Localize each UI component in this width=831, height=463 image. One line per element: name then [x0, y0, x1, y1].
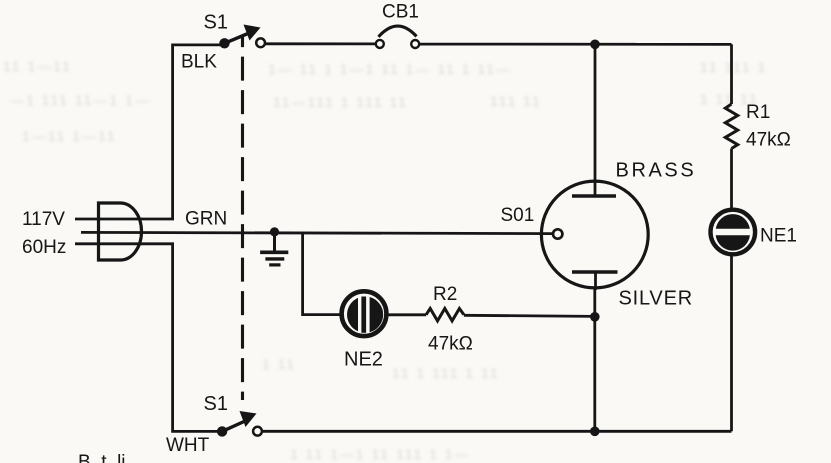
socket S01: silver (bottom) electrode — [572, 270, 618, 274]
node: junction on bottom rail — [590, 427, 600, 437]
svg-text:R2: R2 — [433, 284, 457, 305]
wire: 60Hz lead from label through plug — [75, 242, 174, 245]
svg-text:117V: 117V — [22, 209, 65, 230]
wire: top rail from CB1 to junction and right corner — [419, 43, 731, 46]
wire: left rail down to bottom switch — [173, 244, 219, 432]
node: junction of R2 wire and tube stem — [590, 312, 600, 322]
svg-text:1 11: 1 11 — [262, 356, 296, 372]
switch S1 top pole: hinge dot — [219, 38, 229, 48]
wire: right rail from R1 to NE1 — [730, 149, 733, 210]
svg-text:NE2: NE2 — [344, 349, 383, 371]
switch S1 top pole: throw contact — [256, 38, 265, 47]
switch S1 top pole: arrowhead — [244, 25, 261, 41]
socket S01: centre pin contact — [553, 229, 562, 238]
wire: R2 to tube-stem junction — [464, 315, 595, 316]
svg-text:B. t. li: B. t. li — [78, 452, 126, 463]
svg-text:1— 11 1 1—1 11 1— 11 1 11—: 1— 11 1 1—1 11 1— 11 1 11— — [268, 61, 512, 77]
neon lamp NE1: electrodes (disc with horizontal gap) — [716, 214, 750, 251]
node: top junction at tube stem — [590, 40, 600, 50]
svg-text:11 111 1: 11 111 1 — [700, 59, 767, 75]
svg-text:S1: S1 — [204, 393, 228, 415]
neon lamp NE2: envelope — [342, 291, 387, 336]
svg-text:SILVER: SILVER — [619, 288, 693, 310]
node: junction of GRN line and ground — [270, 227, 279, 236]
partially cut caption at bottom left — [78, 452, 126, 463]
wire: left rail up to top switch — [173, 45, 221, 219]
switch S1 top pole: blade — [225, 34, 249, 44]
switch S1 bottom pole: hinge dot — [217, 426, 227, 436]
svg-text:S01: S01 — [501, 205, 535, 226]
wire: NE2 to R2 — [387, 313, 426, 316]
wire: top rail from switch to CB1 — [265, 42, 376, 45]
plug P1 line-cord connector — [99, 203, 142, 260]
wire: tube cathode stem down to bottom rail — [593, 288, 596, 431]
svg-text:60Hz: 60Hz — [22, 237, 66, 258]
svg-text:BLK: BLK — [181, 52, 217, 73]
svg-text:NE1: NE1 — [760, 226, 797, 247]
svg-text:11—111 1 111 11: 11—111 1 111 11 — [273, 94, 408, 110]
wire: bottom rail — [262, 430, 732, 433]
svg-text:R1: R1 — [746, 102, 770, 123]
wire: GRN middle conductor — [81, 232, 553, 233]
svg-text:S1: S1 — [204, 12, 228, 34]
switch S1 bottom pole: blade — [222, 422, 244, 432]
resistor R2 47k zigzag — [426, 309, 464, 321]
svg-text:BRASS: BRASS — [616, 160, 697, 182]
svg-text:GRN: GRN — [185, 209, 227, 230]
svg-text:—1 111 11—1 1—: —1 111 11—1 1— — [10, 92, 151, 108]
circuit breaker CB1: right contact — [411, 40, 419, 48]
svg-text:1—11 1—11: 1—11 1—11 — [22, 128, 117, 144]
switch S1 bottom pole: throw contact — [253, 427, 262, 436]
svg-text:11 1—11: 11 1—11 — [3, 58, 72, 74]
circuit breaker CB1: arc — [379, 26, 417, 37]
socket S01: stem from silver electrode — [594, 272, 597, 290]
svg-text:WHT: WHT — [166, 435, 210, 456]
switch S1 bottom pole: arrowhead — [240, 411, 257, 427]
mechanical link between S1 poles (dashed) — [241, 37, 244, 400]
svg-text:1 11 1—1 11 111 1 1—: 1 11 1—1 11 111 1 1— — [290, 446, 471, 462]
wire: tube anode stem from top rail down into socket — [594, 44, 597, 196]
svg-text:11 1 111 1 11: 11 1 111 1 11 — [392, 365, 499, 381]
svg-text:111 11: 111 11 — [490, 93, 542, 109]
wire: right rail down to R1 — [730, 44, 733, 104]
neon lamp NE1: envelope — [711, 210, 756, 255]
resistor R1 47k zigzag — [725, 104, 737, 149]
neon lamp NE2: electrodes (disc with vertical gap and centre bar) — [347, 297, 383, 333]
socket S01: brass (top) electrode — [572, 194, 616, 198]
svg-text:47kΩ: 47kΩ — [428, 334, 473, 355]
wire: 117V lead from label to plug — [75, 218, 174, 221]
svg-text:47kΩ: 47kΩ — [746, 130, 791, 151]
wire: branch from GRN line down to NE2 — [303, 232, 341, 315]
svg-text:CB1: CB1 — [382, 2, 419, 23]
ground symbol — [260, 232, 288, 265]
wire: right rail from NE1 to bottom corner — [730, 254, 733, 431]
socket S01: envelope circle — [541, 181, 648, 288]
circuit breaker CB1: left contact — [376, 40, 384, 48]
